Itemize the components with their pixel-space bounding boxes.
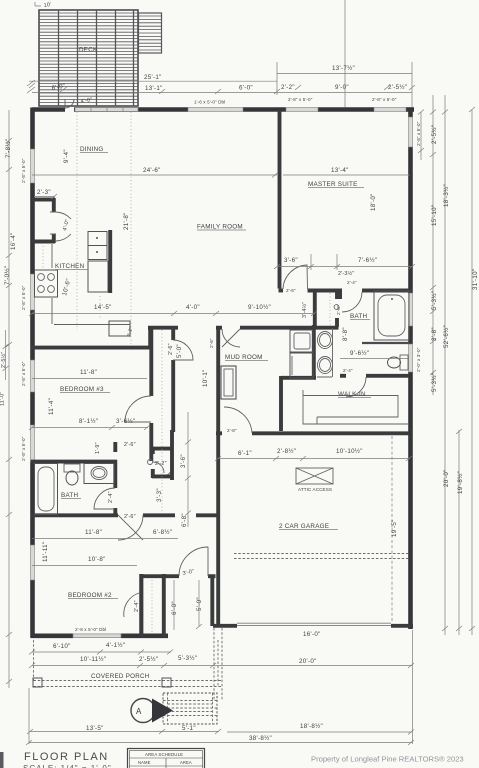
svg-text:2'-5½": 2'-5½" [0, 352, 7, 368]
svg-text:9'-6½": 9'-6½" [350, 350, 369, 357]
door arc hall bath [94, 488, 115, 509]
svg-text:2'-8" x 5'-0": 2'-8" x 5'-0" [21, 158, 26, 183]
svg-text:BEDROOM #2: BEDROOM #2 [68, 592, 112, 599]
kitchen counter left edge [51, 244, 53, 324]
svg-text:6'-8½": 6'-8½" [153, 529, 172, 536]
window L5 left bedroom2 [31, 545, 35, 580]
wall hallway right [171, 329, 175, 340]
svg-text:18'-8½": 18'-8½" [300, 723, 323, 730]
centerline dotted kitchen [43, 246, 100, 318]
centerline dotted vertical a [76, 112, 78, 330]
wall bath right [113, 442, 117, 452]
svg-text:2'-5½": 2'-5½" [388, 84, 407, 91]
centerline dotted foyer [151, 580, 153, 632]
door arc master entry [283, 265, 308, 289]
corner tick 4' top left [35, 2, 41, 6]
svg-text:18'-3½": 18'-3½" [443, 184, 450, 207]
wall garage top [216, 431, 222, 435]
window L1 left dining [31, 149, 35, 183]
window W3 top master [286, 108, 318, 112]
svg-text:11'-0": 11'-0" [0, 391, 6, 406]
svg-text:7'-6½": 7'-6½" [358, 257, 377, 264]
wall vanity divider [312, 325, 316, 379]
svg-text:3'-8": 3'-8" [431, 327, 438, 341]
svg-text:2'-6": 2'-6" [168, 343, 174, 355]
door arc hall top [173, 340, 193, 360]
svg-text:1'-6 x 5'-0" Dbl: 1'-6 x 5'-0" Dbl [194, 100, 225, 105]
svg-text:8'-8": 8'-8" [342, 327, 349, 341]
svg-text:10'-6": 10'-6" [61, 278, 72, 297]
svg-text:2'-8" x 5'-0": 2'-8" x 5'-0" [21, 436, 26, 461]
svg-text:9'-0": 9'-0" [335, 84, 349, 91]
window L3 left bedroom3 [31, 360, 35, 392]
area schedule table [128, 749, 205, 768]
wall bath top [31, 460, 118, 464]
svg-text:2'-2": 2'-2" [126, 326, 133, 337]
svg-text:20'-0": 20'-0" [443, 469, 450, 487]
svg-text:31'-10": 31'-10" [472, 269, 479, 290]
svg-text:6'-0": 6'-0" [239, 85, 253, 92]
svg-text:AREA: AREA [180, 760, 192, 765]
svg-text:BATH: BATH [61, 492, 79, 499]
svg-text:18'-0": 18'-0" [370, 193, 377, 211]
wall foyer top [196, 513, 218, 517]
svg-text:5'-3½": 5'-3½" [431, 291, 438, 310]
svg-text:21'-8": 21'-8" [123, 212, 130, 230]
hall bath vanity sink [84, 464, 114, 484]
svg-text:2'-0": 2'-0" [336, 305, 341, 315]
svg-text:9'-4": 9'-4" [63, 149, 70, 163]
svg-text:4'-0": 4'-0" [80, 97, 93, 105]
mudroom washer dryer [290, 330, 313, 378]
svg-text:2'-4": 2'-4" [108, 491, 114, 503]
svg-text:52'-6½": 52'-6½" [443, 325, 450, 348]
centerline dotted hallway [161, 330, 163, 513]
mudroom locker cabinet [221, 366, 236, 399]
svg-text:2'-4": 2'-4" [347, 280, 357, 285]
door arc deck door [65, 99, 74, 108]
wall master left [278, 111, 282, 289]
svg-text:1'-9": 1'-9" [95, 442, 101, 454]
svg-text:2'-8" x 5'-0": 2'-8" x 5'-0" [288, 97, 313, 102]
svg-text:AREA SCHEDULE: AREA SCHEDULE [145, 752, 183, 757]
svg-text:NAME: NAME [138, 760, 151, 765]
wall mudroom top / hall [148, 326, 178, 330]
dimension line hall vertical [185, 412, 191, 527]
wall garage left [216, 327, 220, 625]
svg-text:10': 10' [43, 2, 51, 9]
tick deck dims [27, 80, 68, 93]
svg-text:4'-1½": 4'-1½" [106, 642, 125, 649]
window R3 right toilet [409, 344, 413, 372]
pantry double door arcs [56, 212, 71, 241]
door arc bed2 closet [124, 593, 139, 617]
svg-text:3'-0": 3'-0" [182, 569, 195, 577]
wall linen hall closet [152, 430, 173, 480]
door arc front entry [179, 547, 208, 576]
svg-text:BEDROOM #3: BEDROOM #3 [60, 386, 104, 393]
left margin dimension line [3, 110, 13, 688]
svg-text:13'-1": 13'-1" [145, 85, 163, 92]
svg-text:A: A [136, 707, 142, 716]
svg-text:11'-4": 11'-4" [48, 398, 55, 415]
hall bath toilet [64, 464, 80, 485]
wall pantry [32, 198, 56, 243]
svg-text:4'-0": 4'-0" [62, 219, 71, 232]
svg-text:15'-10": 15'-10" [431, 205, 438, 226]
window W1 top dining [75, 108, 138, 112]
wall linen closet master [315, 292, 339, 327]
svg-text:11'-8": 11'-8" [85, 529, 102, 536]
svg-text:2'-3½": 2'-3½" [338, 270, 354, 277]
svg-text:BATH: BATH [350, 313, 368, 320]
walk-in shelving [303, 390, 409, 424]
porch dashed outline [33, 628, 222, 700]
svg-text:FAMILY ROOM: FAMILY ROOM [197, 224, 243, 231]
deck DECK hatch boards [39, 10, 138, 106]
window B1 bottom bedroom2 Dbl [73, 634, 121, 638]
right margin dimension lines [421, 95, 472, 635]
svg-text:7'-0½": 7'-0½" [4, 266, 11, 285]
svg-text:10'-11½": 10'-11½" [80, 656, 106, 663]
svg-text:13'-5": 13'-5" [86, 725, 104, 732]
door arc bedroom2 [118, 515, 143, 540]
deck stairs [139, 13, 162, 53]
svg-text:3'-4½": 3'-4½" [301, 302, 308, 318]
wire top wall [32, 107, 414, 112]
svg-text:6'-0": 6'-0" [171, 601, 178, 615]
scan edge bottom left [0, 752, 4, 768]
svg-text:COVERED PORCH: COVERED PORCH [91, 673, 150, 680]
kitchen peninsula sink counter [54, 321, 134, 337]
svg-text:10'-10½": 10'-10½" [336, 448, 363, 455]
wall master bottom [279, 289, 284, 293]
svg-text:10'-1": 10'-1" [202, 369, 209, 387]
svg-text:20'-0": 20'-0" [299, 658, 317, 665]
svg-text:MUD ROOM: MUD ROOM [225, 354, 263, 361]
window R1 right master [409, 117, 413, 147]
door arc bath inner [342, 292, 362, 312]
svg-text:2'-6": 2'-6" [209, 338, 214, 348]
svg-text:2'-5½": 2'-5½" [139, 656, 158, 663]
attic access [296, 468, 333, 484]
svg-text:10'-8": 10'-8" [88, 556, 106, 563]
svg-text:24'-6": 24'-6" [143, 167, 161, 174]
hall bath tub [35, 464, 58, 515]
door arc hall closet [153, 462, 164, 473]
svg-text:5'-1": 5'-1" [182, 725, 196, 732]
svg-text:2'-8": 2'-8" [227, 428, 237, 433]
svg-text:2'-8" x 5'-0": 2'-8" x 5'-0" [21, 285, 26, 310]
svg-text:11'-11": 11'-11" [42, 542, 49, 562]
svg-text:2'-6": 2'-6" [124, 442, 136, 448]
svg-text:19'-8½": 19'-8½" [457, 471, 464, 494]
garage dashed wall line [391, 436, 393, 622]
svg-text:4'-0": 4'-0" [186, 304, 200, 311]
svg-text:2'-3": 2'-3" [37, 189, 51, 196]
svg-text:5'-0": 5'-0" [176, 344, 183, 358]
svg-text:2'-8" x 5'-0": 2'-8" x 5'-0" [372, 97, 397, 102]
wall hallway left [149, 327, 153, 396]
compass north arrow [131, 699, 173, 723]
wall bath bottom / bed2 top [31, 513, 119, 517]
svg-text:DECK: DECK [79, 47, 98, 54]
svg-text:11'-8": 11'-8" [80, 369, 97, 376]
svg-text:16'-0": 16'-0" [303, 631, 321, 638]
svg-text:19'-5": 19'-5" [391, 519, 398, 537]
svg-text:2'-8" x 5'-0": 2'-8" x 5'-0" [416, 121, 421, 146]
svg-text:13'-7½": 13'-7½" [332, 65, 355, 72]
wire right wall [408, 110, 413, 630]
master toilet [388, 355, 409, 370]
wire garage door line [237, 623, 391, 625]
svg-text:13'-4": 13'-4" [331, 167, 349, 174]
wall bed2 closet [139, 574, 143, 637]
svg-text:6'-8": 6'-8" [181, 513, 188, 527]
wall jog kitchen-hall [148, 326, 152, 349]
wall walkin left [279, 376, 283, 431]
kitchen appliance column fridge ovens [88, 230, 110, 293]
svg-text:DINING: DINING [80, 146, 104, 153]
vanity master sinks [317, 328, 333, 377]
wire left wall [30, 108, 35, 638]
svg-text:5'-3½": 5'-3½" [431, 373, 438, 392]
svg-text:2'-8½": 2'-8½" [277, 448, 296, 455]
door arc garage hall [224, 407, 252, 433]
wall front entry [140, 574, 414, 637]
centerline dotted vertical b [130, 112, 132, 345]
window L2 left kitchen [31, 274, 35, 310]
svg-text:38'-8½": 38'-8½" [249, 735, 272, 742]
svg-text:2'-8" x 5'-0": 2'-8" x 5'-0" [21, 361, 26, 386]
svg-text:5'-3½": 5'-3½" [178, 655, 197, 662]
svg-text:2'-2": 2'-2" [155, 461, 167, 467]
svg-text:Property of Longleaf Pine REAL: Property of Longleaf Pine REALTORS® 2023 [311, 755, 464, 764]
svg-text:9'-10½": 9'-10½" [248, 304, 271, 311]
svg-text:WALK-IN: WALK-IN [338, 391, 366, 398]
svg-text:6'-0": 6'-0" [51, 83, 66, 92]
svg-text:3'-6½": 3'-6½" [116, 418, 135, 425]
wall bath bottom / walkin top [340, 374, 346, 378]
svg-text:3'-6": 3'-6" [284, 257, 298, 264]
svg-text:7'-8½": 7'-8½" [5, 139, 12, 158]
svg-text:3'-6": 3'-6" [180, 454, 187, 468]
svg-text:KITCHEN: KITCHEN [55, 263, 85, 270]
svg-text:FLOOR PLAN: FLOOR PLAN [24, 751, 109, 763]
wall mudroom bottom [281, 376, 316, 380]
window L4 left bedroom3b [31, 425, 35, 462]
door arc mudroom [222, 329, 240, 347]
svg-text:6'-10": 6'-10" [53, 643, 71, 650]
svg-text:ATTIC ACCESS: ATTIC ACCESS [298, 487, 332, 492]
svg-text:25'-1": 25'-1" [144, 74, 162, 81]
front steps [163, 693, 217, 724]
svg-text:MASTER SUITE: MASTER SUITE [308, 181, 358, 188]
svg-text:8'-1½": 8'-1½" [79, 418, 98, 425]
svg-text:2'-8 x 5'-0" Dbl: 2'-8 x 5'-0" Dbl [75, 627, 106, 632]
door arc bedroom3 [125, 396, 151, 422]
svg-text:2'-6": 2'-6" [124, 514, 136, 520]
svg-text:SCALE: 1/4" = 1'-0": SCALE: 1/4" = 1'-0" [23, 764, 112, 768]
wire bottom wall bedroom2 [31, 633, 169, 638]
window W2 top family 1'-6 x 5'-0 Dbl [188, 108, 243, 112]
window W4 top master 2 [374, 108, 406, 112]
svg-text:2 CAR GARAGE: 2 CAR GARAGE [279, 523, 329, 530]
master bath tub [362, 291, 409, 343]
svg-text:2'-0" x 3'-0": 2'-0" x 3'-0" [416, 347, 421, 372]
svg-text:2'-5½": 2'-5½" [431, 125, 438, 144]
window R2 right bath [409, 293, 413, 326]
svg-text:16'-4": 16'-4" [10, 232, 17, 250]
svg-text:2'-6": 2'-6" [286, 288, 296, 293]
kitchen stove cooktop [35, 270, 58, 297]
svg-text:2'-4": 2'-4" [134, 600, 140, 612]
svg-text:5'-0": 5'-0" [196, 597, 203, 611]
garage door dashed [234, 554, 410, 559]
svg-text:2'-2": 2'-2" [281, 84, 295, 91]
svg-text:14'-5": 14'-5" [94, 304, 112, 311]
wall kitchen south [31, 346, 151, 350]
svg-text:6'-1": 6'-1" [238, 450, 252, 457]
svg-text:2'-4": 2'-4" [343, 368, 353, 373]
